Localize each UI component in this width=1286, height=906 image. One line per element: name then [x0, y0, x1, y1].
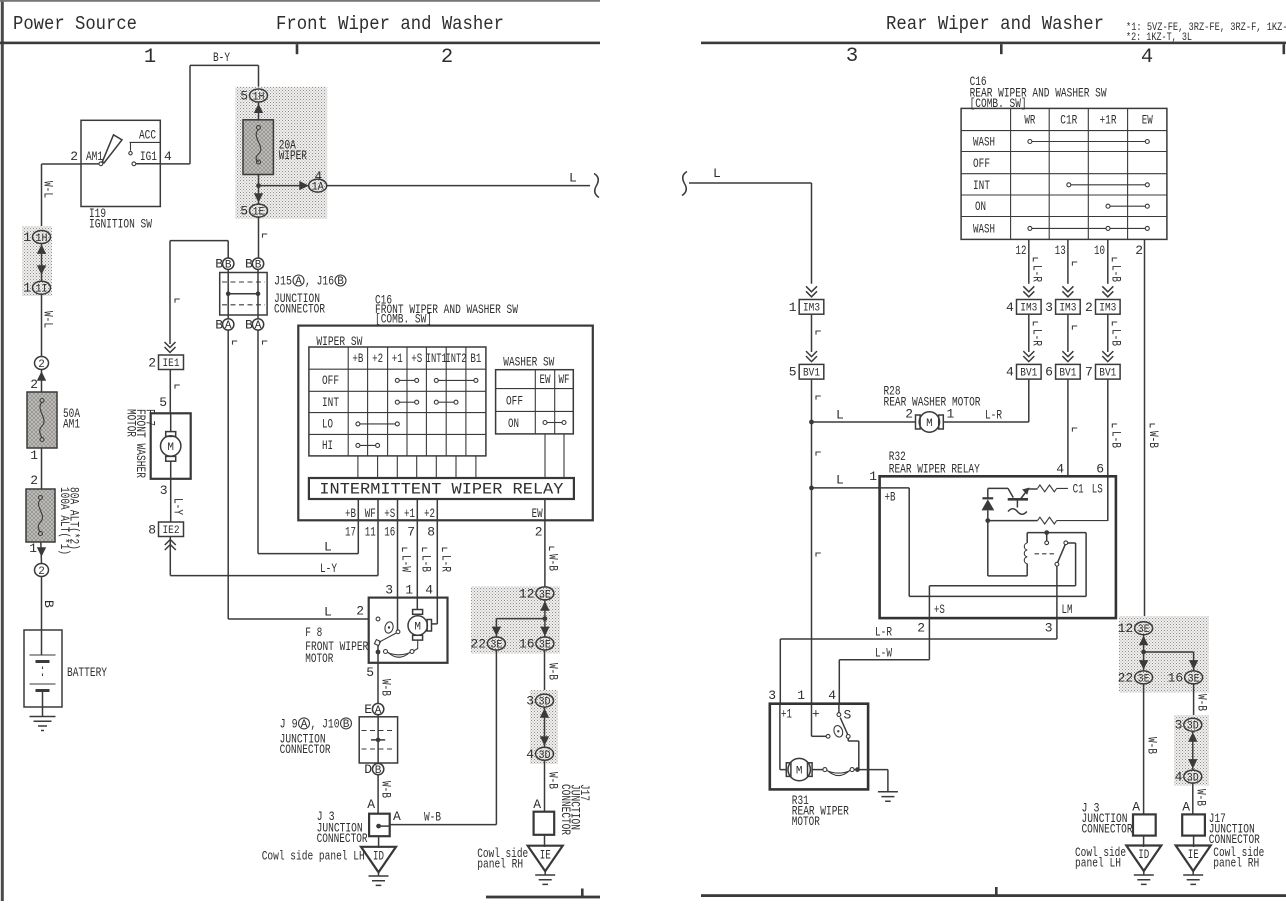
svg-text:5: 5	[789, 365, 797, 380]
svg-text:2: 2	[38, 359, 45, 371]
wire IE1 to F7	[169, 370, 171, 414]
rear table headers	[973, 113, 1153, 237]
svg-text:, J16: , J16	[305, 274, 334, 289]
chevrons into IE1	[165, 342, 176, 353]
motor M R31	[780, 704, 786, 770]
fuse 50A AM1 body	[27, 392, 57, 448]
svg-text:1: 1	[29, 541, 37, 556]
svg-text:D: D	[364, 762, 372, 777]
relay switch node	[1044, 530, 1049, 535]
rear comb switch table grid	[961, 108, 1167, 239]
battery ground	[30, 717, 56, 731]
svg-text:IE1: IE1	[163, 358, 180, 370]
ACC compartment divider	[130, 142, 161, 150]
svg-text:2: 2	[30, 377, 38, 392]
connector 4(3D) oval	[1184, 770, 1202, 785]
svg-text:IE: IE	[540, 848, 551, 863]
junction connector J9/J10 box	[359, 717, 397, 763]
svg-text:2: 2	[148, 356, 156, 371]
svg-text:4: 4	[526, 747, 534, 762]
wire IM3 to BV1	[811, 314, 813, 352]
F8 banana contact arc	[384, 650, 388, 654]
wire +S to R31 pin4 (L-W)	[839, 618, 929, 704]
wiper switch table grid	[309, 347, 486, 456]
wire 4(3D) to J17	[1192, 783, 1194, 814]
F8 motor M	[413, 610, 423, 615]
node diode-resistor	[985, 518, 990, 523]
svg-text:W-B: W-B	[379, 679, 394, 696]
svg-text:4: 4	[1056, 462, 1064, 477]
svg-text:1: 1	[869, 469, 877, 484]
svg-text:, J10: , J10	[311, 716, 340, 731]
svg-text:4: 4	[1006, 365, 1014, 380]
wire circle2 to 50A fuse	[41, 370, 43, 393]
svg-text:OFF: OFF	[506, 393, 523, 408]
wire pin12 column (L-R)	[1028, 239, 1030, 283]
svg-text:B: B	[41, 600, 56, 608]
svg-text:2: 2	[70, 149, 78, 164]
svg-text:BATTERY: BATTERY	[67, 665, 107, 680]
F7 box	[151, 413, 191, 479]
label L-R rotated with gamma	[443, 548, 448, 552]
bottom tick left page	[581, 889, 584, 897]
svg-text:LM: LM	[1062, 602, 1073, 617]
arrow down into circle 2	[37, 547, 46, 556]
wire D(B) to J3	[377, 775, 379, 814]
transistor Q1 (PUT)	[988, 488, 1014, 497]
ground below IE	[544, 871, 546, 875]
stubs table to relay	[358, 456, 476, 478]
gamma mark on B(A) right wire	[263, 341, 268, 345]
svg-text:WASH: WASH	[973, 221, 995, 236]
wire node to 22(3E) branch	[496, 619, 545, 637]
svg-text:4: 4	[828, 688, 836, 703]
emitter wave	[1016, 501, 1018, 508]
fuse 100A element	[38, 500, 42, 533]
svg-text:22: 22	[1118, 670, 1134, 685]
svg-text:ON: ON	[508, 416, 519, 431]
svg-text:1H: 1H	[253, 92, 265, 104]
chevrons up into IE2	[165, 540, 176, 551]
svg-text:B: B	[343, 719, 350, 731]
wire 100A to circle 2	[40, 542, 43, 564]
svg-text:W-B: W-B	[424, 810, 441, 825]
svg-text:1E: 1E	[253, 207, 265, 219]
svg-text:B: B	[337, 276, 344, 288]
internal bus with nodes	[228, 269, 258, 318]
bottom tick right page	[995, 887, 998, 895]
svg-text:INT: INT	[973, 178, 990, 193]
svg-text:L-W: L-W	[875, 646, 892, 661]
svg-text:2: 2	[1085, 300, 1093, 315]
svg-text:+2: +2	[372, 351, 383, 366]
wiper contacts OFF row	[395, 378, 478, 382]
svg-text:2: 2	[38, 566, 45, 578]
svg-text:BV1: BV1	[803, 368, 820, 380]
svg-text:5: 5	[159, 395, 167, 410]
svg-text:B-Y: B-Y	[213, 50, 230, 65]
svg-text:INT1: INT1	[426, 351, 447, 366]
label J15(A), J16(B)	[274, 274, 346, 289]
node below fuse	[256, 183, 261, 188]
connector 5 BV1 box	[799, 364, 824, 379]
svg-text:3E: 3E	[1188, 673, 1200, 685]
svg-text:10: 10	[1094, 243, 1105, 258]
wire +B/17 to junction connector B(A) right	[258, 330, 358, 553]
ground triangle ID right (cowl LH)	[1126, 846, 1161, 872]
connector 1A oval	[309, 179, 327, 194]
wire J3 to ID triangle	[378, 836, 380, 848]
svg-text:J15: J15	[274, 274, 292, 289]
wire L to page edge	[327, 185, 590, 187]
R28 rear washer motor M	[916, 415, 921, 429]
svg-text:1: 1	[23, 230, 31, 245]
gamma mark	[263, 234, 268, 238]
wiper contacts INT row	[395, 400, 458, 404]
wire 1E to junction connector	[258, 217, 260, 258]
svg-text:BV1: BV1	[1059, 368, 1076, 380]
svg-text:8: 8	[427, 524, 435, 539]
wire 12(3E) to node	[1143, 635, 1145, 671]
continuation squiggle L (from front page)	[682, 172, 687, 196]
svg-text:W-B: W-B	[1146, 431, 1161, 448]
tick right page	[1000, 44, 1003, 54]
svg-text:+B: +B	[345, 506, 356, 521]
R31 ground wire	[858, 770, 888, 792]
svg-text:2: 2	[917, 621, 925, 636]
svg-text:ID: ID	[373, 849, 384, 864]
F8 park switch arm	[379, 633, 397, 642]
wire R28 to BV1-4 riser (L-R)	[943, 379, 1029, 422]
svg-text:5: 5	[366, 665, 374, 680]
svg-text:4: 4	[314, 169, 322, 184]
svg-text:WIPER: WIPER	[279, 148, 307, 163]
wire 16(3E) to 3D	[1193, 684, 1195, 718]
wire pin10 column (L-B)	[1107, 239, 1109, 283]
svg-text:+1R: +1R	[1100, 113, 1117, 128]
svg-text:12: 12	[1118, 621, 1134, 636]
arrow up into 1H	[37, 245, 46, 254]
svg-text:IE: IE	[1188, 847, 1199, 862]
connector 12(3E) oval	[1135, 622, 1153, 637]
shaded 3D area right	[1174, 715, 1209, 786]
banana contact arc R31	[812, 769, 823, 771]
wire between 1H and 1I	[41, 244, 43, 282]
svg-text:3: 3	[385, 583, 393, 598]
svg-text:IE2: IE2	[163, 525, 180, 537]
wire 3(3D) to 4(3D)	[1192, 731, 1194, 770]
svg-text:+2: +2	[424, 506, 435, 521]
connector 1(1I) oval	[33, 281, 51, 296]
bottom border left page	[486, 896, 600, 899]
svg-text:panel RH: panel RH	[1213, 856, 1259, 871]
svg-text:4: 4	[425, 583, 433, 598]
svg-text:A: A	[393, 809, 401, 824]
page frame: left page top border	[0, 0, 600, 2]
wire 22(3E) down to J3	[390, 650, 497, 825]
svg-text:4: 4	[1141, 46, 1153, 69]
svg-text:7: 7	[1085, 365, 1093, 380]
svg-text:M: M	[414, 622, 421, 634]
wire 50A to 100A fuse	[41, 448, 43, 489]
svg-text:8: 8	[148, 523, 156, 538]
fuse 100A/80A ALT body	[26, 489, 55, 542]
ground triangle IE right (cowl RH)	[1176, 846, 1211, 872]
svg-text:LO: LO	[322, 417, 333, 432]
svg-text:3: 3	[768, 688, 776, 703]
svg-text:OFF: OFF	[322, 373, 339, 388]
svg-text:+B: +B	[352, 351, 363, 366]
node circle 2 (battery)	[35, 564, 49, 579]
svg-text:W-B: W-B	[379, 781, 394, 798]
junction connector box	[220, 273, 267, 316]
svg-text:16: 16	[1168, 670, 1184, 685]
ground triangle ID (cowl side panel LH)	[361, 847, 396, 873]
arrow down into 1E	[254, 193, 263, 202]
svg-text:Cowl side panel LH: Cowl side panel LH	[262, 849, 365, 864]
pin B(B) circle left	[223, 258, 234, 271]
svg-text:WF: WF	[365, 506, 376, 521]
svg-text:22: 22	[470, 637, 486, 652]
svg-text:IM3: IM3	[1059, 303, 1076, 315]
C16 comb switch box	[298, 326, 593, 521]
tick right edge	[1283, 44, 1286, 54]
label L-B rotated with gamma	[423, 548, 428, 552]
connector 1 IM3 box	[799, 300, 824, 315]
arrow up into circle 2	[37, 371, 46, 380]
svg-text:3D: 3D	[539, 750, 551, 762]
svg-text:12: 12	[1016, 243, 1027, 258]
svg-text:+S: +S	[411, 351, 422, 366]
svg-text:3E: 3E	[539, 589, 551, 601]
label J 9(A), J10(B)	[280, 716, 352, 731]
svg-text:+1: +1	[781, 707, 792, 722]
connector 3 IM3	[1056, 300, 1081, 315]
pin D(B) circle	[372, 763, 383, 776]
svg-text:L-B: L-B	[419, 555, 434, 572]
F8 pin4 wire to motor right terminal	[432, 623, 438, 625]
wire node to 1A	[259, 185, 309, 187]
wire below IE2	[169, 537, 171, 576]
wire 3(3D) to 4(3D)	[544, 707, 546, 747]
svg-text:13: 13	[1055, 243, 1066, 258]
svg-text:M: M	[167, 442, 174, 454]
svg-text:EW: EW	[1142, 113, 1153, 128]
wire BV1 down to R31 (main L line)	[811, 379, 813, 736]
svg-text:WR: WR	[1024, 113, 1035, 128]
svg-text:W-B: W-B	[1194, 789, 1209, 806]
internal wire with node	[371, 715, 385, 764]
svg-text:4: 4	[1006, 300, 1014, 315]
shaded fuse block area	[236, 87, 328, 219]
svg-text:16: 16	[384, 524, 395, 539]
svg-text:L-W: L-W	[399, 555, 414, 572]
svg-text:WASH: WASH	[973, 135, 995, 150]
svg-text:ACC: ACC	[139, 128, 156, 143]
R32 box	[880, 476, 1116, 618]
svg-text:L: L	[836, 473, 844, 488]
svg-text:3E: 3E	[539, 640, 551, 652]
washer switch table grid	[496, 370, 574, 434]
svg-text:3E: 3E	[490, 640, 502, 652]
svg-text:L-Y: L-Y	[320, 561, 337, 576]
battery plates	[30, 655, 56, 684]
svg-text:2: 2	[1135, 243, 1143, 258]
wire 22(3E) to J3 right	[1143, 684, 1145, 815]
svg-text:ID: ID	[1138, 847, 1149, 862]
rear contacts WASH2	[1028, 226, 1149, 230]
branch to 16(3E)	[1144, 652, 1194, 671]
F8 cam	[384, 621, 395, 634]
svg-text:+S: +S	[384, 506, 395, 521]
gamma mark	[175, 385, 180, 389]
blade bottom to node	[848, 738, 859, 769]
connector 4 BV1	[1017, 364, 1042, 379]
svg-text:2: 2	[30, 473, 38, 488]
svg-text:3D: 3D	[1187, 773, 1199, 785]
fuse 20A element	[256, 130, 261, 163]
svg-text:3: 3	[846, 45, 858, 68]
svg-text:1: 1	[144, 46, 156, 69]
wire 12(3E) to node	[544, 600, 546, 637]
node L to washer motor	[809, 420, 814, 425]
arrow up into 12(3E)	[540, 601, 549, 610]
connector 4(3D) oval	[536, 747, 554, 762]
svg-text:L-R: L-R	[875, 625, 892, 640]
connector 3(3D) oval	[536, 694, 554, 709]
connector J17 box	[534, 812, 555, 835]
svg-text:IG1: IG1	[140, 149, 157, 164]
svg-text:1: 1	[789, 300, 797, 315]
svg-text:CONNECTOR: CONNECTOR	[280, 742, 331, 757]
+ wire to contact	[812, 735, 827, 737]
wire J3 to ID	[1143, 836, 1145, 847]
label L-W rotated with gamma	[403, 548, 408, 552]
tick left page	[296, 44, 299, 54]
svg-text:BV1: BV1	[1099, 368, 1116, 380]
F8 motor bottom to banana	[414, 640, 418, 651]
svg-text:L-Y: L-Y	[171, 498, 186, 515]
shaded 3E area	[471, 587, 560, 654]
svg-text:IM3: IM3	[1099, 303, 1116, 315]
F8 +S contact circle	[396, 630, 400, 634]
svg-text:1H: 1H	[36, 233, 48, 245]
svg-text:+: +	[812, 707, 820, 722]
blade top to +S line	[929, 543, 1075, 618]
svg-text:REAR WIPER RELAY: REAR WIPER RELAY	[889, 462, 980, 477]
shaded connector area 1H/1I	[22, 226, 52, 296]
F8 arm to node	[377, 646, 379, 663]
svg-text:MOTOR: MOTOR	[124, 409, 139, 437]
intermittent wiper relay bar	[309, 478, 574, 499]
wire B-Y horizontal	[190, 65, 259, 89]
R31 box	[770, 704, 868, 790]
svg-text:+1: +1	[404, 506, 415, 521]
wire B(A)-left down to F8 pin 2	[228, 330, 369, 619]
svg-text:+B: +B	[885, 490, 896, 505]
svg-text:1I: 1I	[36, 284, 48, 296]
arrow down into 16(3E)	[540, 627, 549, 636]
chevrons into 1 IM3	[806, 286, 817, 297]
connector 5(1H) oval	[250, 89, 268, 104]
svg-text:IGNITION SW: IGNITION SW	[89, 217, 152, 232]
svg-text:4: 4	[1175, 770, 1183, 785]
svg-text:1: 1	[947, 407, 955, 422]
svg-text:1: 1	[30, 448, 38, 463]
svg-text:12: 12	[519, 586, 535, 601]
fixed contact	[1045, 541, 1049, 545]
svg-text:panel RH: panel RH	[477, 857, 523, 872]
wiper contacts HI row	[356, 443, 380, 447]
continuation squiggle	[594, 174, 599, 198]
F8 pin2 contact	[376, 617, 380, 621]
svg-text:L-B: L-B	[1108, 329, 1123, 346]
svg-text:W-B: W-B	[1144, 737, 1159, 754]
dashed bus lines	[222, 282, 265, 305]
wire 7 BV1 down to relay pin 6	[1107, 379, 1109, 521]
pin B(A) circle right	[252, 319, 263, 332]
svg-text:3D: 3D	[1187, 721, 1199, 733]
wire pin13 column	[1067, 239, 1069, 283]
svg-text:INT: INT	[322, 395, 339, 410]
svg-text:2: 2	[535, 524, 543, 539]
svg-text:A: A	[1132, 800, 1140, 815]
svg-text:3: 3	[1045, 300, 1053, 315]
connector J3 box right	[1133, 814, 1156, 835]
motor M circle F7	[170, 413, 172, 431]
svg-text:2: 2	[356, 604, 364, 619]
svg-text:L-R: L-R	[1029, 329, 1044, 346]
connector 16(3E) oval	[1185, 671, 1203, 686]
svg-text:L: L	[569, 171, 577, 186]
connector 5(1E) oval	[250, 204, 268, 219]
svg-text:L-R: L-R	[439, 555, 454, 572]
wire B(B)-left up/left to IE1 riser	[170, 241, 228, 344]
F8 box	[369, 598, 448, 663]
svg-text:OFF: OFF	[973, 156, 990, 171]
svg-text:1: 1	[797, 688, 805, 703]
svg-text:EW: EW	[532, 506, 543, 521]
stubs washer to relay	[545, 434, 564, 478]
R31 switch blade through cam	[832, 724, 844, 738]
washer contacts ON row	[543, 421, 566, 425]
svg-text:5: 5	[240, 89, 248, 104]
svg-text:IM3: IM3	[803, 303, 820, 315]
+B internal wire	[880, 488, 1087, 597]
svg-text:C1: C1	[1073, 482, 1084, 497]
svg-text:A: A	[301, 719, 308, 731]
svg-text:W-B: W-B	[546, 663, 561, 680]
bottom border right page	[701, 894, 1286, 897]
connector 3(3D) oval	[1184, 718, 1202, 733]
arrow down into 22(3E)	[492, 627, 501, 636]
connector 22(3E) oval	[487, 637, 505, 652]
label W-B rotated (EW wire) with gamma	[550, 547, 555, 551]
svg-text:A: A	[367, 797, 375, 812]
svg-text:L: L	[324, 540, 332, 555]
wire ignition pin4 to B-Y riser	[136, 65, 190, 163]
wire ignition pin2 to left column	[42, 164, 100, 231]
svg-text:S: S	[844, 708, 852, 723]
node circle 2	[35, 357, 49, 372]
svg-text:4: 4	[164, 149, 172, 164]
wiper table headers	[322, 351, 482, 453]
svg-text:3: 3	[526, 694, 534, 709]
svg-text:L-R: L-R	[1029, 265, 1044, 282]
svg-text:REAR WASHER MOTOR: REAR WASHER MOTOR	[884, 395, 981, 410]
connector 8 IE2 box	[159, 522, 184, 537]
svg-text:CONNECTOR: CONNECTOR	[1082, 822, 1133, 837]
